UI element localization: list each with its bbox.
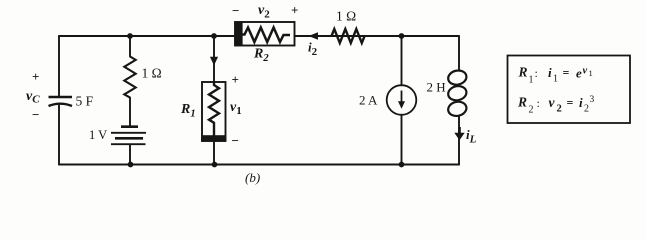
svg-text:1 Ω: 1 Ω [336, 9, 356, 24]
wire left upper [58, 36, 60, 96]
equation box [508, 56, 631, 124]
svg-text:=: = [567, 96, 574, 110]
current source arrow (down) [401, 91, 403, 104]
resistor R2 box [235, 22, 295, 46]
svg-text:e: e [576, 66, 582, 81]
equation R1: i1 = e^v1 [518, 65, 593, 86]
svg-text:2 A: 2 A [359, 93, 378, 108]
svg-text:−: − [232, 133, 239, 148]
resistor R2 left black bar [235, 21, 243, 46]
resistor R1 zigzag [209, 82, 219, 136]
wire battery branch lower [129, 145, 131, 165]
resistor R1 box [202, 82, 226, 141]
svg-text:v: v [549, 95, 556, 110]
svg-text:2 H: 2 H [427, 80, 446, 95]
node dot top R1 branch [211, 33, 217, 39]
svg-text:1: 1 [553, 74, 558, 85]
svg-text::: : [537, 96, 540, 110]
svg-text:vC: vC [26, 89, 40, 106]
svg-text:=: = [563, 66, 570, 80]
svg-text:R2: R2 [253, 47, 269, 65]
wire R1 branch upper [213, 36, 215, 82]
wire source branch lower [401, 115, 403, 165]
svg-text:iL: iL [466, 127, 477, 146]
svg-text:+: + [32, 69, 39, 84]
node dot bottom battery branch [128, 162, 134, 168]
svg-text:1 Ω: 1 Ω [142, 66, 162, 81]
resistor R2 zigzag [243, 28, 290, 43]
wire battery branch middle [129, 98, 131, 127]
wire left lower [58, 106, 60, 165]
svg-text:v2: v2 [258, 3, 270, 21]
resistor 1 ohm (top) zigzag [332, 29, 365, 43]
svg-text:R1: R1 [180, 102, 196, 120]
svg-text:−: − [232, 3, 239, 18]
capacitor 5 F plates [49, 97, 73, 106]
svg-text:i: i [579, 95, 583, 110]
svg-text:5 F: 5 F [76, 94, 94, 109]
svg-text:1: 1 [589, 68, 593, 78]
svg-text::: : [535, 66, 538, 80]
svg-text:R: R [518, 65, 528, 80]
wire right lower (from inductor) [458, 116, 460, 165]
svg-text:i: i [548, 65, 552, 80]
current source 2 A circle [387, 85, 417, 115]
svg-text:R: R [517, 95, 527, 110]
equation R2: v2 = i2^3 [517, 95, 595, 116]
svg-text:v1: v1 [230, 100, 242, 117]
battery 1 V [111, 127, 146, 145]
wire top-left segment [59, 35, 235, 37]
current arrow i2 (left) [309, 32, 319, 39]
svg-text:(b): (b) [245, 170, 260, 185]
resistor R1 bottom black bar [201, 135, 226, 141]
node dot top source branch [399, 33, 405, 39]
svg-text:−: − [32, 107, 39, 122]
svg-text:v: v [583, 66, 588, 77]
inductor 2 H coil [447, 69, 468, 118]
wire top-right segment [295, 35, 460, 37]
wire source branch upper [401, 36, 403, 85]
wire battery branch upper [129, 36, 131, 57]
current arrow into R1 (down) [210, 57, 218, 66]
svg-text:i2: i2 [308, 40, 318, 59]
wire R1 branch lower [213, 141, 215, 165]
svg-text:2: 2 [529, 105, 534, 116]
wire right upper (to inductor) [458, 36, 460, 71]
svg-text:2: 2 [557, 104, 562, 115]
svg-text:+: + [232, 72, 239, 87]
svg-text:1: 1 [529, 75, 534, 86]
wire bottom [59, 164, 459, 166]
svg-text:2: 2 [584, 104, 589, 115]
current arrow iL (down) [458, 127, 461, 134]
resistor 1 ohm (left vertical) [124, 57, 135, 98]
node dot top battery branch [127, 33, 133, 39]
svg-text:1 V: 1 V [89, 128, 107, 142]
svg-text:3: 3 [590, 95, 595, 105]
svg-text:+: + [291, 3, 298, 18]
node dot bottom source branch [399, 162, 405, 168]
node dot bottom R1 branch [212, 162, 218, 168]
